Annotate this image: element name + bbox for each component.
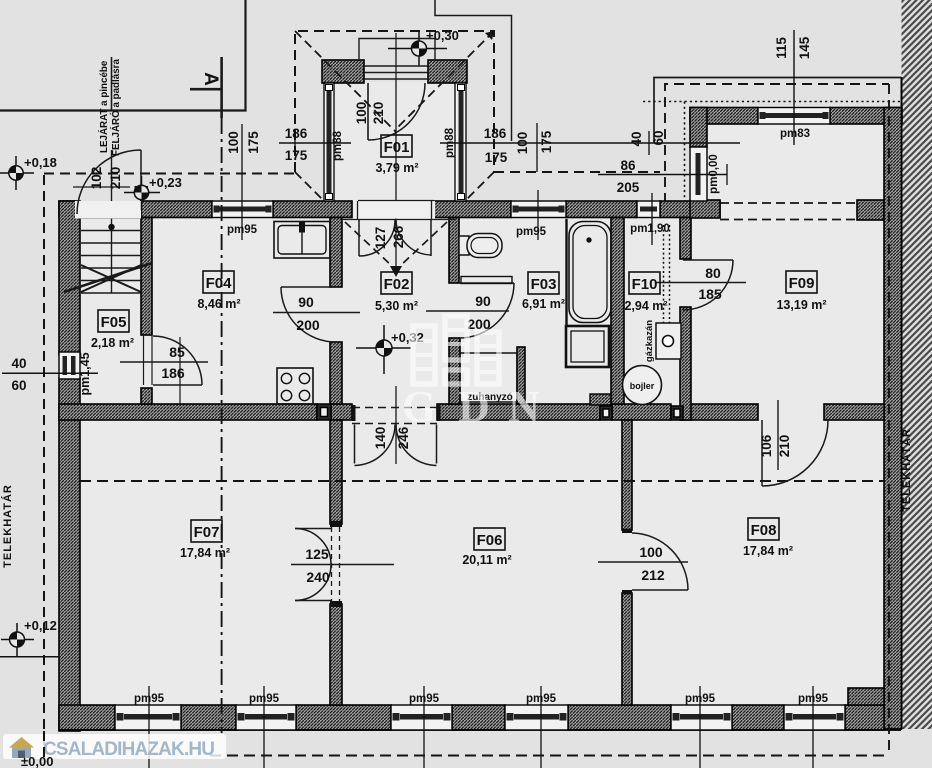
svg-text:90: 90 (298, 294, 314, 310)
entry steps (359, 39, 435, 80)
neighbour building border top-left (0, 0, 246, 111)
left outer wall lower (59, 378, 80, 731)
svg-text:175: 175 (485, 150, 508, 165)
svg-text:LEJÁRAT a pincébe: LEJÁRAT a pincébe (98, 60, 110, 153)
window pm1,90 F10 (637, 201, 660, 218)
F01 glazed side wall left pm88 (324, 83, 334, 201)
mid wall M3 (437, 404, 600, 420)
svg-text:pm95: pm95 (227, 224, 258, 236)
WC F03 (459, 234, 502, 258)
top wall T5 (566, 201, 637, 218)
svg-text:pm95: pm95 (409, 693, 440, 705)
shower right wall (517, 347, 525, 404)
room label F02 (375, 272, 418, 313)
gazkazan platform (656, 323, 681, 359)
svg-text:186: 186 (484, 126, 507, 141)
svg-text:86: 86 (620, 158, 636, 173)
wall F02/F03 lower + shower left wall (449, 338, 460, 404)
F09 block construction lines (654, 78, 902, 144)
svg-text:G: G (402, 382, 436, 431)
bojler (623, 366, 662, 405)
stair break cross (81, 265, 141, 292)
svg-text:A: A (200, 72, 221, 86)
svg-text:gázkazán: gázkazán (644, 320, 655, 362)
stairwell right wall lower (141, 388, 152, 404)
door F02 to F03 90/200 (459, 282, 514, 284)
svg-text:60: 60 (651, 130, 666, 145)
svg-text:186: 186 (285, 126, 308, 141)
wall F04/F02 upper (330, 218, 342, 288)
window pm95 bottom 3 (F06) (391, 705, 452, 730)
svg-text:TELEKHATÁR: TELEKHATÁR (1, 484, 14, 568)
svg-text:pm1,90: pm1,90 (630, 223, 670, 235)
dim line y143 right (440, 142, 740, 144)
svg-text:17,84 m²: 17,84 m² (743, 544, 793, 558)
svg-text:+0,30: +0,30 (426, 28, 459, 43)
benchmark +0,18 (0, 155, 57, 190)
svg-text:125: 125 (305, 546, 329, 562)
canopy hip diagonal right (396, 31, 494, 129)
svg-text:40: 40 (629, 131, 644, 146)
property band boundary line (901, 77, 903, 729)
benchmark +0,12 (0, 618, 60, 657)
entrance door F01 (367, 83, 369, 140)
svg-text:F06: F06 (477, 532, 503, 549)
canopy hip diagonal left (295, 31, 396, 132)
svg-text:100: 100 (515, 132, 530, 155)
svg-text:pm95: pm95 (249, 693, 280, 705)
svg-text:175: 175 (539, 130, 554, 153)
svg-text:FELJÁRÓ a padlásra: FELJÁRÓ a padlásra (110, 59, 122, 156)
svg-text:185: 185 (698, 286, 722, 302)
washing machine F03 (566, 326, 609, 367)
dim line 40/60 F05 window (2, 372, 98, 374)
svg-text:140: 140 (373, 427, 388, 450)
wall F06/F08 upper (622, 420, 632, 530)
F01 glazed side wall right pm88 (455, 83, 466, 201)
svg-text:F09: F09 (789, 275, 815, 292)
mid wall M4 (612, 404, 671, 420)
left property dashed line (43, 175, 45, 756)
door F05 to F04 85/186 (143, 335, 145, 385)
svg-text:210: 210 (108, 167, 123, 190)
kitchen sink F04 (274, 222, 330, 259)
double door F06 to F07 125/240 (330, 521, 342, 527)
svg-text:N: N (508, 382, 540, 431)
top wall T2 (141, 201, 212, 218)
stair cut diagonal (64, 263, 152, 292)
wall F06/F08 lower (622, 593, 632, 705)
F01 top wall left block (322, 60, 364, 83)
dim line 86/205 (598, 174, 727, 176)
svg-text:F07: F07 (194, 524, 220, 541)
svg-text:pm95: pm95 (526, 693, 557, 705)
svg-text:F05: F05 (101, 314, 127, 331)
chase step block (590, 394, 611, 405)
svg-text:2,94 m²: 2,94 m² (624, 299, 667, 313)
dim line 115/145 F09 window (793, 30, 795, 145)
svg-text:pm95: pm95 (134, 693, 165, 705)
bathtub F03 (569, 222, 611, 323)
svg-text:212: 212 (641, 567, 665, 583)
svg-text:20,11 m²: 20,11 m² (462, 553, 511, 567)
svg-text:266: 266 (391, 225, 406, 248)
svg-text:F01: F01 (384, 139, 410, 156)
door F06 to F08 100/212 (632, 589, 688, 591)
canopy dashed rect F01 (295, 31, 494, 172)
svg-text:175: 175 (285, 148, 308, 163)
svg-text:175: 175 (246, 131, 261, 154)
window pm83 F09 (758, 108, 830, 125)
room label F07 (180, 520, 230, 560)
F09 left wall vertical arm (690, 108, 707, 148)
svg-text:186: 186 (161, 365, 185, 381)
canopy hip diagonals (295, 172, 323, 200)
section line A dash-dot (221, 118, 223, 733)
door F02 to F04 90/200 (281, 286, 336, 288)
svg-text:85: 85 (169, 344, 185, 360)
top wall T4 (434, 201, 511, 218)
F09 top wall left arm (690, 108, 758, 125)
dashed beam F09 passage (720, 202, 857, 204)
svg-text:±0,00: ±0,00 (21, 754, 53, 768)
svg-text:100: 100 (639, 544, 663, 560)
gas boiler flue dotted (663, 225, 665, 337)
svg-text:106: 106 (759, 434, 774, 457)
svg-text:13,19 m²: 13,19 m² (776, 298, 826, 312)
svg-text:F03: F03 (531, 276, 557, 293)
wall stub F09 left (690, 200, 720, 218)
svg-text:240: 240 (306, 569, 330, 585)
svg-text:pm0,00: pm0,00 (708, 154, 720, 194)
svg-text:210: 210 (371, 102, 386, 125)
room label F03 (522, 272, 565, 311)
shower F03 (460, 353, 517, 402)
svg-text:80: 80 (705, 265, 721, 281)
svg-text:pm95: pm95 (685, 693, 716, 705)
section flag A (190, 88, 222, 91)
svg-text:210: 210 (777, 435, 792, 458)
svg-text:200: 200 (296, 317, 320, 333)
svg-text:60: 60 (11, 378, 26, 393)
room label F01 (375, 135, 418, 175)
top wall T6 (660, 201, 720, 218)
window pm95 top kitchen (212, 201, 273, 218)
svg-text:pm88: pm88 (444, 127, 456, 158)
long dashed eave line left (44, 173, 295, 175)
stair axis label line (111, 57, 113, 111)
svg-text:90: 90 (475, 293, 491, 309)
svg-text:pm95: pm95 (516, 226, 547, 238)
mid wall M5 (683, 404, 758, 420)
window pm95 top bath (511, 201, 566, 218)
flue boxes in mid wall (317, 404, 683, 420)
property hatch band right (902, 0, 932, 729)
window dim verticals (241, 124, 243, 240)
svg-text:6,91 m²: 6,91 m² (522, 297, 565, 311)
stair treads (81, 217, 141, 219)
axis line F01-F02 (395, 33, 397, 275)
svg-text:2,18 m²: 2,18 m² (91, 336, 134, 350)
svg-text:CSALADIHAZAK.HU: CSALADIHAZAK.HU (43, 739, 215, 760)
svg-text:100: 100 (354, 102, 369, 125)
svg-text:145: 145 (797, 36, 812, 59)
left outer wall upper (59, 201, 80, 355)
svg-text:pm1,45: pm1,45 (78, 352, 92, 395)
svg-text:17,84 m²: 17,84 m² (180, 546, 230, 560)
floor areas (78, 215, 886, 707)
window pm95 bottom 5 (F08) (671, 705, 732, 730)
svg-text:F04: F04 (206, 275, 233, 292)
room label F10 (624, 272, 667, 313)
F09 top wall right arm (830, 108, 902, 125)
window pm95 bottom 1 (F07) (115, 705, 181, 730)
room label F04 (197, 271, 240, 311)
svg-text:127: 127 (373, 227, 388, 250)
pillar F09 (857, 200, 884, 220)
door F09 to F08 106/210 (761, 420, 763, 486)
svg-text:pm88: pm88 (332, 130, 344, 161)
mid wall M2 (331, 404, 352, 420)
wall F03/F10 (611, 218, 624, 405)
svg-text:+0,12: +0,12 (24, 618, 57, 633)
washbasin shelf F03 (461, 277, 512, 284)
double door F01/F02 (354, 201, 435, 219)
wall F02/F03 upper (449, 218, 459, 284)
svg-text:pm95: pm95 (798, 693, 829, 705)
top wall T1 (59, 201, 75, 218)
room label F06 (462, 528, 511, 567)
stove F04 (277, 368, 313, 404)
svg-text:+0,23: +0,23 (149, 175, 182, 190)
wall F10/F09 upper (680, 218, 691, 260)
corner pier bottom right (848, 688, 884, 705)
room label F05 (91, 310, 134, 350)
roof overhang dashed right (888, 84, 890, 750)
wall F10/F09 lower (680, 307, 691, 420)
svg-text:F08: F08 (751, 522, 777, 539)
svg-text:F10: F10 (632, 276, 658, 293)
room label F08 (743, 518, 793, 558)
svg-text:102: 102 (89, 167, 104, 190)
svg-text:115: 115 (774, 37, 789, 59)
window pm95 bottom 6 (F08) (784, 705, 845, 730)
top wall T3 (273, 201, 352, 218)
svg-text:5,30 m²: 5,30 m² (375, 299, 418, 313)
window pm95 bottom 2 (F07) (236, 705, 296, 730)
tub partition (565, 219, 567, 325)
svg-text:bojler: bojler (630, 381, 655, 391)
stair walking line (111, 150, 113, 293)
svg-text:pm83: pm83 (780, 128, 810, 140)
svg-text:40: 40 (11, 356, 26, 371)
bottom dashed line (210, 755, 889, 757)
long dashed line through lower rooms (80, 480, 884, 482)
wall F07/F06 lower (330, 604, 342, 705)
extension line +0,30 (435, 0, 512, 141)
benchmark +0,30 (388, 28, 459, 66)
outer wall edge line bottom (59, 729, 901, 731)
mid wall M6 (824, 404, 884, 420)
entry door arc stairs (75, 201, 141, 219)
benchmark +0,32 (356, 325, 424, 374)
F01 top wall right block (428, 60, 467, 83)
svg-text:3,79 m²: 3,79 m² (375, 161, 418, 175)
svg-text:100: 100 (226, 131, 241, 154)
window pm1,45 F05 left wall (59, 352, 80, 379)
svg-text:F02: F02 (384, 276, 410, 293)
stairwell right wall upper (141, 218, 152, 336)
benchmark +0,23 (124, 175, 182, 210)
svg-text:TELEKHATÁR: TELEKHATÁR (900, 428, 913, 512)
door F10 to F09 80/185 (683, 259, 733, 261)
room label F09 (776, 271, 826, 312)
window pm0,00 F09 french (690, 147, 707, 201)
bottom wall segments (59, 705, 115, 730)
wall F04/F02 lower (330, 342, 342, 404)
svg-text:205: 205 (617, 180, 640, 195)
mid wall M1 (59, 404, 317, 420)
right outer wall (884, 108, 902, 730)
wall F07/F06 upper (330, 420, 342, 524)
dim line y143 left (279, 142, 351, 144)
window pm95 bottom 4 (F06) (505, 705, 568, 730)
svg-text:D: D (458, 382, 490, 431)
double door F02 to F06 140/246 (352, 407, 437, 409)
door labels 102/210 (73, 186, 130, 188)
svg-text:+0,18: +0,18 (24, 155, 57, 170)
svg-text:8,46 m²: 8,46 m² (197, 297, 240, 311)
